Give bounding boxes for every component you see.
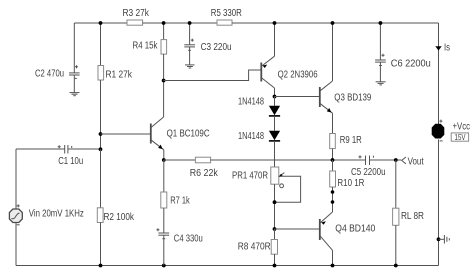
resistor R8 xyxy=(238,240,278,255)
wire Q2 collector to Q3 base xyxy=(275,96,320,98)
svg-text:C2 470u: C2 470u xyxy=(35,69,64,80)
node RL bottom xyxy=(394,264,398,268)
resistor R1 xyxy=(98,66,132,81)
wire R4 bottom to Q1 collector node xyxy=(163,54,165,80)
node R1 top xyxy=(99,21,103,25)
wire R1 bottom to base node xyxy=(100,80,102,149)
source V1 Vin xyxy=(9,204,84,224)
wire right rail lower xyxy=(438,140,440,266)
wire Q4 base xyxy=(275,228,320,230)
wire R10 bottom to Q4 emitter xyxy=(332,187,334,212)
wire PR1 wiper loop xyxy=(275,176,301,202)
svg-text:R5 330R: R5 330R xyxy=(211,8,242,19)
node base tap xyxy=(99,132,103,136)
capacitor C2 xyxy=(35,65,80,79)
svg-text:Is: Is xyxy=(444,43,450,54)
ground below C2 xyxy=(70,93,80,96)
svg-text:Q2 2N3906: Q2 2N3906 xyxy=(278,70,318,81)
wire C2 stem xyxy=(73,23,75,73)
preset PR1 470R xyxy=(232,167,284,188)
wire C2 to ground xyxy=(73,75,75,93)
svg-text:Q3 BD139: Q3 BD139 xyxy=(334,92,371,103)
node mid dot lower xyxy=(331,200,335,204)
wire D2 to PR1 (crosses output rail) xyxy=(274,141,276,167)
svg-text:R7 1k: R7 1k xyxy=(170,196,190,207)
wire bottom rail xyxy=(16,265,439,267)
node right ground tap xyxy=(437,237,441,241)
node C3 top xyxy=(188,21,192,25)
resistor R3 xyxy=(123,8,150,25)
wire C3 to ground xyxy=(189,47,191,65)
wire R7 to C4 xyxy=(163,208,165,233)
wire R9 bottom xyxy=(332,149,334,160)
wire Q1 collector to Q2 base xyxy=(164,70,261,81)
node Q2 collector junction xyxy=(273,95,277,99)
svg-text:Vout: Vout xyxy=(408,157,424,168)
current arrow Is xyxy=(435,43,450,54)
transistor Q4 BD140 xyxy=(320,212,376,250)
node Q4 collector bottom xyxy=(331,264,335,268)
capacitor C1 xyxy=(58,145,83,167)
transistor Q3 BD139 xyxy=(320,81,372,113)
wire C5 to Vout xyxy=(370,159,402,161)
wire Q1 emitter down xyxy=(163,150,165,160)
wire D1 anode xyxy=(274,97,276,106)
ground below C3 xyxy=(185,65,195,68)
wire top rail right segment xyxy=(232,22,439,24)
svg-text:PR1 470R: PR1 470R xyxy=(232,171,268,182)
node C4 bottom xyxy=(162,264,166,268)
wire D1 to D2 xyxy=(274,116,276,131)
capacitor C4 xyxy=(156,228,202,244)
node R8 bottom xyxy=(273,264,277,268)
transistor Q2 2N3906 xyxy=(261,56,317,88)
node Q1 emitter junction xyxy=(162,158,166,162)
resistor R7 xyxy=(161,192,190,208)
wire output rail R6 to C5 xyxy=(211,159,366,161)
svg-text:C1 10u: C1 10u xyxy=(58,156,83,167)
wire Q2 collector down xyxy=(274,88,276,97)
resistor R5 xyxy=(211,8,242,25)
wire PR1 bottom xyxy=(274,184,276,229)
svg-text:R6 22k: R6 22k xyxy=(190,168,218,179)
svg-text:15V: 15V xyxy=(455,132,466,142)
svg-text:Q1 BC109C: Q1 BC109C xyxy=(167,129,210,140)
svg-text:R1 27k: R1 27k xyxy=(106,70,133,81)
node R4 top xyxy=(162,21,166,25)
svg-text:C6 2200u: C6 2200u xyxy=(391,59,431,70)
wire Q4 collector down xyxy=(332,250,334,265)
wire source top xyxy=(15,149,17,209)
terminal Vout xyxy=(402,157,424,168)
svg-text:R9 1R: R9 1R xyxy=(340,135,362,146)
capacitor C3 xyxy=(184,39,231,53)
wire R2 stem xyxy=(100,149,102,208)
svg-text:Q4 BD140: Q4 BD140 xyxy=(335,224,376,235)
resistor RL xyxy=(393,208,424,225)
wire C6 to ground xyxy=(379,62,381,82)
wire source bottom xyxy=(15,223,17,266)
resistor R10 xyxy=(330,171,365,189)
wire R8 bottom xyxy=(274,254,276,265)
wire base to Q1 xyxy=(101,133,151,135)
node mid dot upper xyxy=(331,190,335,194)
wire R1 top stem xyxy=(100,23,102,66)
capacitor C5 xyxy=(351,155,386,178)
wire Q3 collector up xyxy=(332,23,334,81)
wire R8 stem xyxy=(274,229,276,240)
svg-text:RL 8R: RL 8R xyxy=(401,211,424,222)
svg-text:1N4148: 1N4148 xyxy=(238,131,264,142)
svg-text:1N4148: 1N4148 xyxy=(238,97,264,108)
ground below C6 xyxy=(376,82,386,85)
wire R7 stem xyxy=(163,160,165,192)
output rail: Q1 emitter to R6 xyxy=(164,159,196,161)
battery B1 (+Vcc 15V) xyxy=(432,120,470,142)
svg-text:R8 470R: R8 470R xyxy=(238,242,271,253)
wire top rail between R3 and R5 xyxy=(143,22,217,24)
svg-text:R2 100k: R2 100k xyxy=(104,212,135,223)
wire Q1 collector up xyxy=(163,81,165,118)
wire R10 stem xyxy=(332,160,334,171)
node R2 bottom xyxy=(99,264,103,268)
wire Q2 emitter up xyxy=(274,23,276,56)
svg-text:C5 2200u: C5 2200u xyxy=(351,167,386,178)
svg-text:R4 15k: R4 15k xyxy=(133,41,158,52)
node PR1 loop junction xyxy=(273,200,277,204)
ground right (rotated) xyxy=(439,235,450,244)
wire RL bottom xyxy=(395,225,397,265)
node Q4 base junction xyxy=(273,227,277,231)
resistor R6 xyxy=(190,157,218,179)
wire input top from source to C1 xyxy=(16,148,65,150)
wire C1 to base node xyxy=(68,148,101,150)
diode D2 1N4148 xyxy=(238,131,280,142)
node Q2 emitter top xyxy=(273,21,277,25)
transistor Q1 BC109C xyxy=(151,117,210,150)
wire RL stem xyxy=(395,160,397,208)
wire C4 bottom xyxy=(163,235,165,265)
svg-text:R10 1R: R10 1R xyxy=(337,178,364,189)
node Vout junction xyxy=(394,158,398,162)
svg-text:C3 220u: C3 220u xyxy=(201,42,232,53)
wire right rail upper xyxy=(438,23,440,125)
diode D1 1N4148 xyxy=(238,97,280,116)
node Q3 collector top xyxy=(331,21,335,25)
node Q1 collector junction xyxy=(162,79,166,83)
capacitor C6 xyxy=(375,54,431,70)
wire R2 bottom xyxy=(100,223,102,266)
wire C6 stem xyxy=(379,23,381,60)
wire top rail left segment xyxy=(74,22,127,24)
svg-text:C4 330u: C4 330u xyxy=(174,234,203,245)
resistor R9 xyxy=(330,134,362,149)
resistor R4 xyxy=(133,40,167,55)
node C6 top xyxy=(379,21,383,25)
wire C3 stem xyxy=(189,23,191,45)
node output R9/R10 xyxy=(331,158,335,162)
svg-text:R3 27k: R3 27k xyxy=(123,8,150,19)
svg-text:+Vcc: +Vcc xyxy=(453,122,471,133)
wire Q3 emitter to R9 xyxy=(332,113,334,133)
svg-text:Vin 20mV 1KHz: Vin 20mV 1KHz xyxy=(29,208,84,219)
wire R4 stem xyxy=(163,23,165,40)
resistor R2 xyxy=(97,208,134,223)
node C1/R2 junction xyxy=(99,147,103,151)
